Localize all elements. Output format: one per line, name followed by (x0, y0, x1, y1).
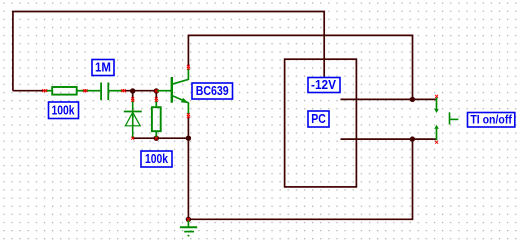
diode D1 (124, 100, 142, 138)
junction node switch bottom (410, 136, 415, 141)
ground symbol (180, 219, 197, 235)
svg-text:PC: PC (311, 112, 326, 126)
pin marker diode top (double) (131, 97, 134, 102)
pin marker R2 bottom on dot (155, 137, 158, 140)
svg-text:TI on/off: TI on/off (470, 113, 512, 127)
wire: switch bottom lead from PC box (341, 138, 436, 140)
pin marker R1 left (double) (42, 89, 47, 92)
label TI on/off (468, 113, 515, 128)
pin marker C1 right (double) (121, 89, 126, 92)
pin marker emitter (double) (187, 113, 190, 118)
svg-text:-12V: -12V (311, 78, 337, 92)
wire net B: collector up, across, down to switch top junction (188, 35, 412, 99)
pin marker diode bottom (131, 137, 134, 140)
pin marker on junction dot 2 (155, 90, 158, 93)
pin marker R1/C1 junction (83, 89, 88, 92)
svg-text:BC639: BC639 (196, 84, 229, 98)
wire: emitter vertical down to ground node (187, 116, 189, 219)
svg-text:1M: 1M (95, 61, 111, 75)
pin marker collector (double) (187, 65, 190, 70)
svg-text:100k: 100k (52, 103, 75, 117)
resistor R2 100k vertical (152, 100, 161, 138)
value label 1M (C1) (92, 60, 114, 76)
wire: bottom run from ground node to switch bottom junction (188, 139, 412, 219)
switch S1 contacts (434, 97, 439, 140)
pin marker ground node on dot (187, 218, 190, 221)
value label 100k (R2) (141, 151, 172, 167)
part label BC639 (Q1) (192, 83, 233, 99)
svg-text:100k: 100k (145, 152, 168, 166)
pin marker R2 top (double) (155, 97, 158, 102)
wire: base node between junction dots (124, 91, 157, 100)
junction node emitter net / lower-left wire (186, 136, 191, 141)
wire net A: left vertical + top run + drop to -12V label (13, 12, 324, 91)
switch S1 actuator (450, 112, 459, 124)
value label 100k (R1) (49, 102, 79, 119)
PC block rectangle (285, 59, 357, 187)
wire net A: stub to R1 left pin (13, 90, 45, 92)
junction node at base/diode net (dot 1) (130, 88, 135, 93)
junction node ground (186, 217, 191, 222)
wire: switch top lead from PC box (341, 98, 436, 100)
label PC (308, 111, 329, 127)
junction node at resistor top net (dot 2) (154, 88, 159, 93)
resistor R1 100k horizontal (45, 87, 86, 95)
pin marker switch top (435, 95, 438, 98)
junction node switch top (410, 97, 415, 102)
capacitor C1 1M (85, 83, 123, 101)
junction node resistor bottom (154, 136, 159, 141)
transistor Q1 BC639 (156, 68, 188, 115)
pin marker switch bottom (435, 141, 438, 144)
wire: lower-left horizontal (diode/resistor bottoms to emitter net) (133, 137, 189, 139)
label -12V (308, 78, 340, 93)
